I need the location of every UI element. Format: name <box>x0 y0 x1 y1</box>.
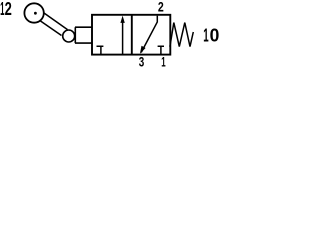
lever upper line <box>44 13 68 30</box>
divider between positions <box>131 15 133 55</box>
arrowhead up <box>120 16 124 23</box>
roller R <box>24 3 43 22</box>
return spring <box>170 23 193 47</box>
right box passage 2-3 diagonal (wire) <box>141 16 157 53</box>
left box passage arrow 1'-2' (wire) <box>122 19 124 55</box>
svg-text:2: 2 <box>158 0 164 15</box>
lever lower line <box>41 21 62 36</box>
left box blocked port T (port 3') <box>97 46 104 54</box>
fulcrum circle <box>63 30 75 42</box>
arrowhead on diagonal <box>140 46 146 54</box>
svg-text:1: 1 <box>161 53 166 67</box>
tappet rectangle <box>75 27 92 43</box>
right box blocked port T (port 1) <box>158 46 164 54</box>
svg-text:1: 1 <box>203 25 208 46</box>
roller axle dot <box>34 12 37 15</box>
svg-text:0: 0 <box>210 25 220 46</box>
svg-text:3: 3 <box>139 53 145 67</box>
valve body outline <box>92 15 170 55</box>
svg-text:2: 2 <box>5 0 12 19</box>
background <box>0 0 225 67</box>
